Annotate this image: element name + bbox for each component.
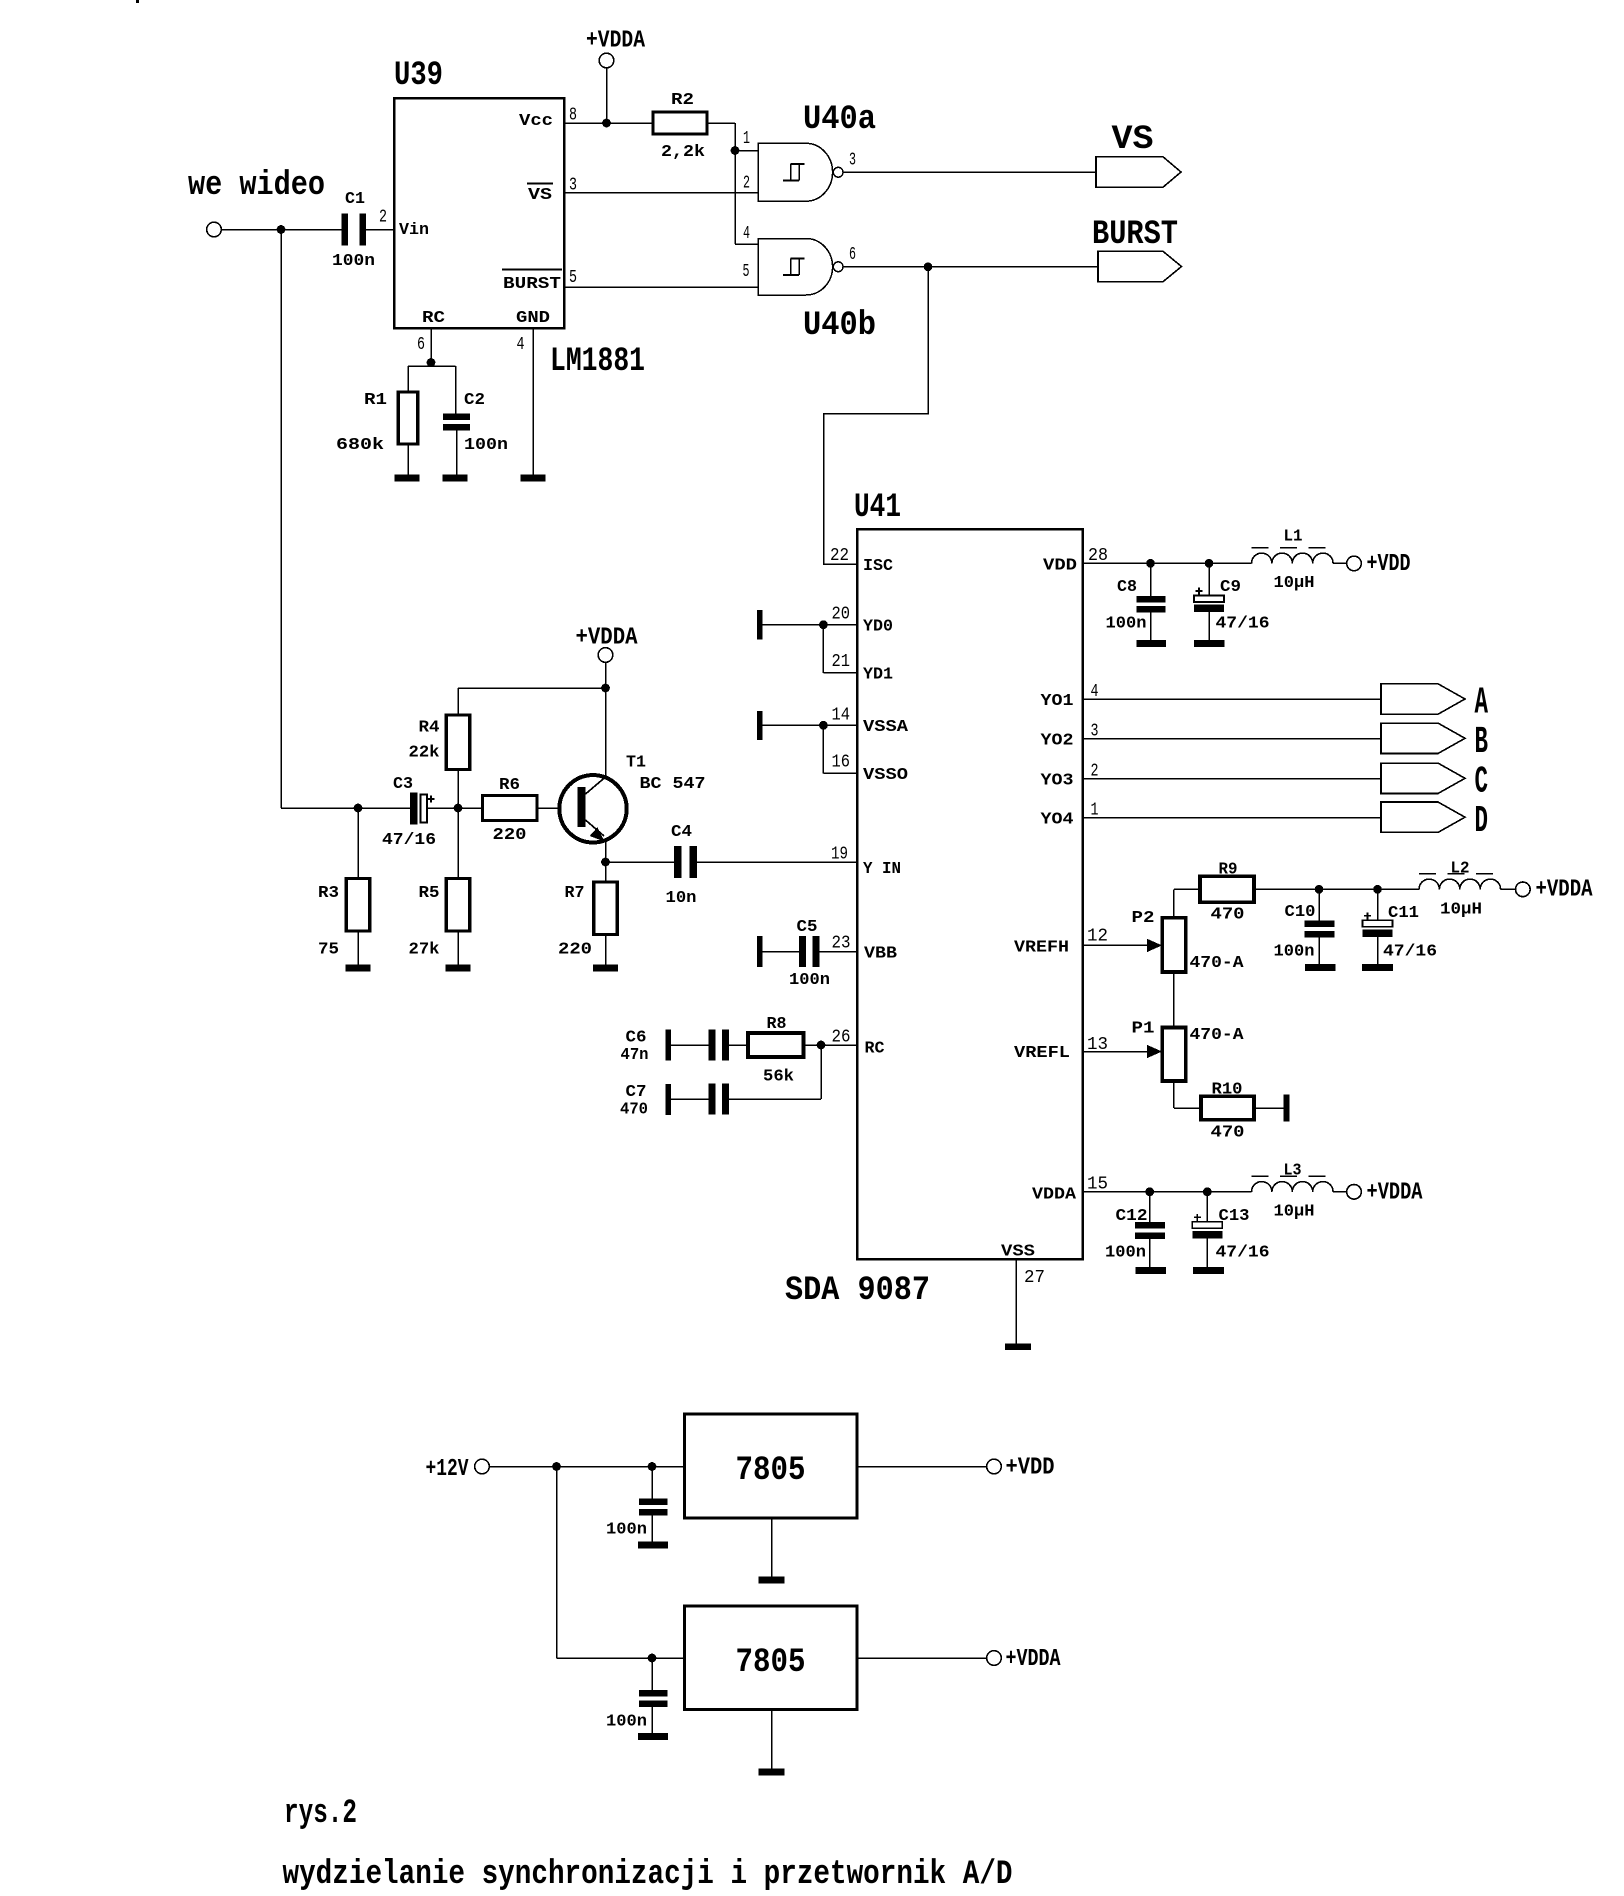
wire VSS pin 27 to ground — [1015, 1259, 1017, 1344]
svg-text:VSS: VSS — [1001, 1243, 1035, 1262]
ground 7805 first — [759, 1577, 785, 1584]
page corner tick — [136, 0, 139, 3]
capacitor C5 with terminator — [757, 936, 763, 967]
svg-text:YO2: YO2 — [1041, 732, 1074, 751]
wire 7805 first output — [857, 1466, 987, 1468]
junction BURST to U41 net — [924, 262, 933, 271]
svg-text:YO1: YO1 — [1041, 692, 1074, 711]
ground 7805 second — [759, 1769, 785, 1776]
svg-text:8: 8 — [569, 106, 577, 126]
junction +12V rail split — [552, 1462, 561, 1471]
svg-text:100n: 100n — [789, 971, 830, 990]
svg-text:Y IN: Y IN — [863, 860, 901, 879]
svg-text:5: 5 — [569, 268, 577, 288]
svg-text:14: 14 — [832, 706, 851, 726]
svg-text:47/16: 47/16 — [1383, 943, 1437, 962]
svg-text:47n: 47n — [621, 1046, 649, 1065]
wire +12V to regulator — [489, 1466, 684, 1468]
wire C6 to R8 — [729, 1044, 748, 1046]
svg-text:56k: 56k — [763, 1068, 794, 1087]
svg-text:we wideo: we wideo — [188, 167, 325, 205]
svg-text:VDDA: VDDA — [1032, 1186, 1077, 1205]
wire R8 to U41 RC pin 26 — [804, 1044, 858, 1046]
regulator 7805 first box — [685, 1414, 858, 1518]
wire YO4 to D — [1083, 817, 1382, 819]
svg-text:27: 27 — [1024, 1268, 1045, 1288]
capacitor C10 — [1318, 889, 1320, 920]
inductor L3 — [1252, 1182, 1334, 1192]
svg-text:6: 6 — [849, 245, 856, 265]
svg-text:LM1881: LM1881 — [550, 343, 645, 381]
wire U41 VREFH pin 12 to P2 — [1083, 944, 1149, 946]
svg-text:C11: C11 — [1388, 904, 1419, 923]
svg-text:P2: P2 — [1132, 909, 1155, 928]
capacitor 100n first — [651, 1467, 653, 1499]
wire C2 to ground — [456, 431, 458, 476]
connector flag B — [1381, 723, 1465, 753]
svg-text:470-A: 470-A — [1190, 954, 1245, 973]
wire P2 bottom to P1 top — [1173, 972, 1175, 1028]
junction Vcc +VDDA — [602, 119, 611, 128]
svg-text:16: 16 — [832, 752, 851, 772]
svg-text:A: A — [1475, 682, 1489, 725]
svg-text:SDA 9087: SDA 9087 — [785, 1272, 930, 1310]
wire R4 top to +VDDA rail — [457, 770, 459, 809]
wire YD0 — [762, 624, 857, 626]
svg-text:U40b: U40b — [803, 307, 876, 345]
wire P2 top to R9 — [1173, 889, 1175, 917]
junction VSSA — [819, 721, 828, 730]
svg-text:470-A: 470-A — [1190, 1026, 1245, 1045]
svg-text:22k: 22k — [409, 744, 440, 763]
junction input node — [277, 225, 286, 234]
svg-text:5: 5 — [743, 262, 750, 282]
svg-text:C4: C4 — [671, 823, 692, 842]
svg-text:6: 6 — [417, 335, 425, 355]
resistor R9 — [1200, 876, 1254, 902]
resistor R1 — [398, 392, 418, 444]
wire C3 to base node — [427, 807, 483, 809]
terminator VSSA — [757, 711, 763, 740]
wire R10 to terminator — [1254, 1107, 1284, 1109]
capacitor C12 — [1149, 1192, 1151, 1222]
svg-text:wydzielanie synchronizacji i p: wydzielanie synchronizacji i przetwornik… — [283, 1856, 1013, 1894]
ground C13 — [1193, 1267, 1224, 1274]
resistor R3 — [357, 808, 359, 879]
power +VDDA output terminal — [987, 1651, 1002, 1666]
svg-text:BC 547: BC 547 — [640, 775, 706, 794]
svg-text:2,2k: 2,2k — [661, 143, 705, 162]
svg-text:+VDDA: +VDDA — [576, 625, 639, 652]
svg-text:47/16: 47/16 — [382, 831, 436, 850]
wire YO2 to B — [1083, 738, 1382, 740]
svg-text:YD1: YD1 — [863, 666, 893, 685]
svg-text:R3: R3 — [318, 884, 339, 903]
ground C2 — [443, 475, 468, 482]
connector flag D — [1381, 802, 1465, 832]
svg-text:10µH: 10µH — [1274, 1203, 1315, 1222]
svg-text:27k: 27k — [409, 941, 440, 960]
wire U41 VREFL pin 13 to P1 — [1083, 1051, 1149, 1053]
wire collector — [605, 688, 607, 777]
capacitor C11 electrolytic — [1377, 889, 1379, 920]
wire VSSO — [822, 725, 824, 773]
wire C1 to U39 pin 2 — [362, 229, 394, 231]
svg-text:C10: C10 — [1285, 903, 1316, 922]
terminator YD0 — [757, 610, 763, 639]
wire P1 bottom to R10 — [1173, 1081, 1175, 1108]
wire BURST node to U41 ISC — [824, 267, 929, 564]
svg-text:U39: U39 — [394, 57, 443, 95]
svg-text:rys.2: rys.2 — [284, 1795, 357, 1833]
node we wideo input terminal — [207, 222, 222, 237]
junction C12 — [1145, 1187, 1154, 1196]
svg-text:220: 220 — [493, 826, 527, 845]
junction R2 gate node — [731, 146, 740, 155]
wire YO3 to C — [1083, 778, 1382, 780]
wire YD1 — [822, 625, 824, 673]
svg-text:C3: C3 — [393, 775, 413, 794]
svg-text:RC: RC — [865, 1040, 885, 1059]
junction C9 — [1205, 559, 1214, 568]
ground C12 — [1135, 1267, 1166, 1274]
svg-text:1: 1 — [743, 129, 750, 149]
wire node to U40a pin 1 — [735, 150, 758, 152]
svg-text:7805: 7805 — [736, 1452, 806, 1490]
capacitor 100n second — [651, 1658, 653, 1690]
resistor R2 — [653, 112, 707, 134]
svg-text:C7: C7 — [626, 1083, 647, 1102]
svg-text:C8: C8 — [1117, 578, 1137, 597]
svg-text:L2: L2 — [1451, 860, 1470, 879]
regulator 7805 second box — [685, 1606, 858, 1710]
svg-text:100n: 100n — [606, 1521, 647, 1540]
svg-text:R8: R8 — [767, 1015, 787, 1034]
svg-text:470: 470 — [1211, 1124, 1245, 1143]
ground R3 — [346, 965, 371, 972]
svg-text:Vin: Vin — [399, 221, 429, 240]
svg-text:+VDDA: +VDDA — [1536, 877, 1593, 904]
svg-text:VS: VS — [528, 186, 552, 205]
svg-text:10µH: 10µH — [1274, 574, 1315, 593]
junction C13 — [1203, 1187, 1212, 1196]
ground VSS — [1005, 1344, 1031, 1351]
transistor T1 BC 547 — [559, 775, 626, 842]
svg-text:22: 22 — [830, 546, 849, 566]
power +VDDA top terminal — [599, 53, 614, 68]
svg-text:3: 3 — [569, 176, 577, 196]
wire +VDDA down — [605, 662, 607, 688]
svg-text:100n: 100n — [1105, 1244, 1146, 1263]
capacitor C1 — [341, 214, 348, 246]
ground C10 — [1305, 964, 1336, 971]
potentiometer P1 — [1162, 1028, 1186, 1082]
wire U39 BURST to U40b pin 5 — [564, 286, 758, 288]
wire 7805 second ground pin — [771, 1710, 773, 1769]
wire R1 to ground — [407, 444, 409, 475]
svg-text:R6: R6 — [499, 776, 520, 795]
svg-text:470: 470 — [1211, 906, 1245, 925]
capacitor C8 — [1150, 563, 1152, 596]
svg-text:GND: GND — [516, 309, 550, 328]
svg-text:VREFL: VREFL — [1014, 1044, 1070, 1063]
wire R6 to base — [537, 807, 578, 809]
svg-text:VSSO: VSSO — [863, 766, 908, 785]
svg-text:470: 470 — [620, 1101, 648, 1120]
wire U39 Vcc to R2 — [564, 122, 653, 124]
wire input to C1 — [221, 229, 344, 231]
svg-text:10n: 10n — [666, 889, 697, 908]
svg-text:VSSA: VSSA — [863, 718, 909, 737]
inductor L1 — [1252, 553, 1334, 563]
svg-text:C12: C12 — [1116, 1207, 1148, 1226]
ground R1 — [395, 475, 420, 482]
svg-text:C6: C6 — [626, 1029, 647, 1048]
svg-text:YO3: YO3 — [1041, 772, 1074, 791]
ground U39 GND — [521, 475, 546, 482]
svg-text:T1: T1 — [626, 754, 646, 773]
svg-text:U40a: U40a — [803, 101, 876, 139]
wire RC node branches — [408, 365, 456, 367]
svg-text:D: D — [1475, 800, 1489, 843]
svg-text:B: B — [1475, 721, 1489, 764]
wire L3 to +VDDA — [1333, 1191, 1347, 1193]
nand gate U40a — [758, 143, 833, 201]
resistor R4 — [446, 715, 470, 770]
wire L2 to +VDDA — [1501, 888, 1516, 890]
svg-text:RC: RC — [422, 309, 445, 328]
wire U41 VDDA pin 15 — [1083, 1191, 1252, 1193]
wire U39 GND pin 4 down — [532, 328, 534, 475]
ground 100n second — [638, 1733, 668, 1740]
capacitor C2 — [443, 414, 470, 421]
connector flag VS — [1096, 157, 1181, 187]
svg-text:+VDD: +VDD — [1367, 551, 1411, 578]
ground R5 — [446, 965, 471, 972]
junction emitter node — [601, 858, 610, 867]
ground C9 — [1194, 640, 1225, 647]
svg-text:23: 23 — [832, 934, 851, 954]
power +VDDA bottom terminal — [1347, 1185, 1362, 1200]
svg-text:R2: R2 — [671, 91, 694, 110]
inductor L2 — [1419, 879, 1501, 889]
capacitor C4 — [606, 861, 675, 863]
svg-text:100n: 100n — [464, 436, 508, 455]
svg-text:26: 26 — [832, 1028, 851, 1048]
svg-text:VS: VS — [1112, 121, 1154, 159]
wire L1 to +VDD — [1333, 562, 1347, 564]
wire U39 RC pin 6 down — [430, 328, 432, 366]
wire rail to C3 — [281, 807, 410, 809]
svg-text:47/16: 47/16 — [1216, 615, 1270, 634]
svg-text:BURST: BURST — [1092, 216, 1178, 254]
wire input rail down — [280, 230, 282, 809]
IC U41 SDA 9087 box — [857, 529, 1083, 1259]
wire 7805 second output — [857, 1657, 987, 1659]
resistor R5 — [457, 808, 459, 879]
svg-text:19: 19 — [831, 845, 848, 865]
wire U39 VS to U40a pin 2 — [564, 192, 758, 194]
svg-text:C1: C1 — [345, 190, 365, 209]
svg-text:2: 2 — [743, 174, 750, 194]
svg-text:2: 2 — [379, 208, 387, 228]
resistor R7 — [605, 862, 607, 882]
ground C8 — [1136, 640, 1166, 647]
power +VDD terminal — [1347, 556, 1362, 571]
svg-text:VBB: VBB — [864, 945, 897, 964]
svg-text:100n: 100n — [1106, 615, 1147, 634]
svg-text:C5: C5 — [797, 918, 818, 937]
svg-text:4: 4 — [743, 224, 750, 244]
svg-text:+VDDA: +VDDA — [1367, 1180, 1423, 1207]
svg-text:12: 12 — [1087, 927, 1108, 947]
junction R3 tap — [354, 804, 363, 813]
resistor R10 — [1201, 1096, 1254, 1120]
wire R2 to gates node — [707, 122, 735, 124]
wire +VDDA down to Vcc net — [606, 68, 608, 123]
resistor R6 — [483, 796, 538, 821]
svg-text:220: 220 — [558, 941, 592, 960]
svg-text:+VDDA: +VDDA — [586, 28, 645, 55]
connector flag C — [1381, 763, 1465, 793]
junction 100n cap 1 — [648, 1462, 657, 1471]
svg-text:7805: 7805 — [736, 1644, 806, 1682]
power +VDDA mid terminal — [598, 648, 613, 663]
junction C8 — [1146, 559, 1155, 568]
svg-text:VREFH: VREFH — [1014, 939, 1069, 958]
capacitor C9 electrolytic — [1208, 563, 1210, 595]
wire C5 to U41 VBB pin 23 — [820, 951, 858, 953]
svg-text:YD0: YD0 — [863, 618, 893, 637]
capacitor C3 electrolytic — [410, 793, 418, 825]
svg-text:YO4: YO4 — [1041, 811, 1074, 830]
svg-text:R5: R5 — [419, 884, 440, 903]
junction YD0 — [819, 620, 828, 629]
svg-text:R4: R4 — [419, 719, 440, 738]
wire rail down to second regulator — [556, 1467, 558, 1659]
svg-text:L3: L3 — [1284, 1162, 1302, 1181]
wire 7805 first ground pin — [771, 1518, 773, 1577]
nand gate U40b — [758, 239, 833, 296]
wire U41 VDD pin 28 — [1083, 562, 1252, 564]
svg-text:R7: R7 — [565, 884, 585, 903]
ground C11 — [1362, 964, 1393, 971]
ground R7 — [593, 965, 618, 972]
wire U40a output to VS flag — [843, 171, 1096, 173]
svg-text:+VDDA: +VDDA — [1006, 1646, 1061, 1673]
IC U39 LM1881 box — [394, 98, 564, 328]
svg-text:20: 20 — [832, 604, 851, 624]
svg-text:R1: R1 — [364, 391, 387, 410]
svg-text:BURST: BURST — [503, 275, 561, 294]
junction C11 — [1373, 885, 1382, 894]
wire C7 up to RC node — [729, 1098, 821, 1100]
junction base node — [454, 804, 463, 813]
svg-text:47/16: 47/16 — [1216, 1244, 1270, 1263]
ground 100n first — [638, 1542, 668, 1549]
connector flag BURST — [1098, 251, 1182, 281]
wire node to U40b pin 4 — [735, 243, 758, 245]
wire C4 to U41 Y IN pin 19 — [697, 861, 857, 863]
svg-text:U41: U41 — [854, 489, 901, 527]
junction +VDDA collector — [601, 684, 610, 693]
capacitor C13 electrolytic — [1206, 1192, 1208, 1222]
svg-text:R10: R10 — [1212, 1081, 1243, 1100]
connector flag A — [1381, 684, 1465, 714]
svg-text:3: 3 — [849, 151, 856, 171]
svg-text:100n: 100n — [332, 252, 375, 271]
junction RC node — [427, 358, 436, 367]
junction C10 — [1315, 885, 1324, 894]
resistor R8 — [748, 1033, 804, 1057]
potentiometer P2 — [1162, 918, 1186, 972]
svg-text:C2: C2 — [464, 391, 485, 410]
svg-text:Vcc: Vcc — [519, 112, 553, 131]
svg-text:21: 21 — [832, 652, 851, 672]
svg-text:ISC: ISC — [863, 557, 893, 576]
svg-text:10µH: 10µH — [1440, 901, 1482, 920]
svg-text:75: 75 — [318, 941, 339, 960]
svg-text:680k: 680k — [336, 436, 384, 455]
svg-text:C9: C9 — [1220, 578, 1241, 597]
wire YO1 to A — [1083, 698, 1382, 700]
wire R9 to L2 — [1254, 888, 1419, 890]
svg-text:+VDD: +VDD — [1006, 1455, 1055, 1482]
svg-text:C: C — [1475, 761, 1489, 804]
power +VDDA right terminal — [1516, 882, 1531, 897]
power +VDD output terminal — [987, 1459, 1002, 1474]
junction 100n cap 2 — [648, 1654, 657, 1663]
svg-text:+12V: +12V — [426, 1456, 469, 1483]
svg-text:R9: R9 — [1219, 861, 1238, 880]
wire VSSA — [762, 724, 857, 726]
svg-text:C13: C13 — [1219, 1207, 1250, 1226]
svg-text:4: 4 — [517, 335, 525, 355]
terminator R10 — [1284, 1095, 1290, 1122]
svg-text:VDD: VDD — [1043, 557, 1077, 576]
svg-text:100n: 100n — [1274, 943, 1315, 962]
wire U40b output to BURST flag — [843, 266, 1098, 268]
svg-text:100n: 100n — [606, 1713, 647, 1732]
svg-text:L1: L1 — [1284, 528, 1303, 547]
svg-text:P1: P1 — [1132, 1020, 1155, 1039]
junction RC node U41 — [817, 1041, 826, 1050]
